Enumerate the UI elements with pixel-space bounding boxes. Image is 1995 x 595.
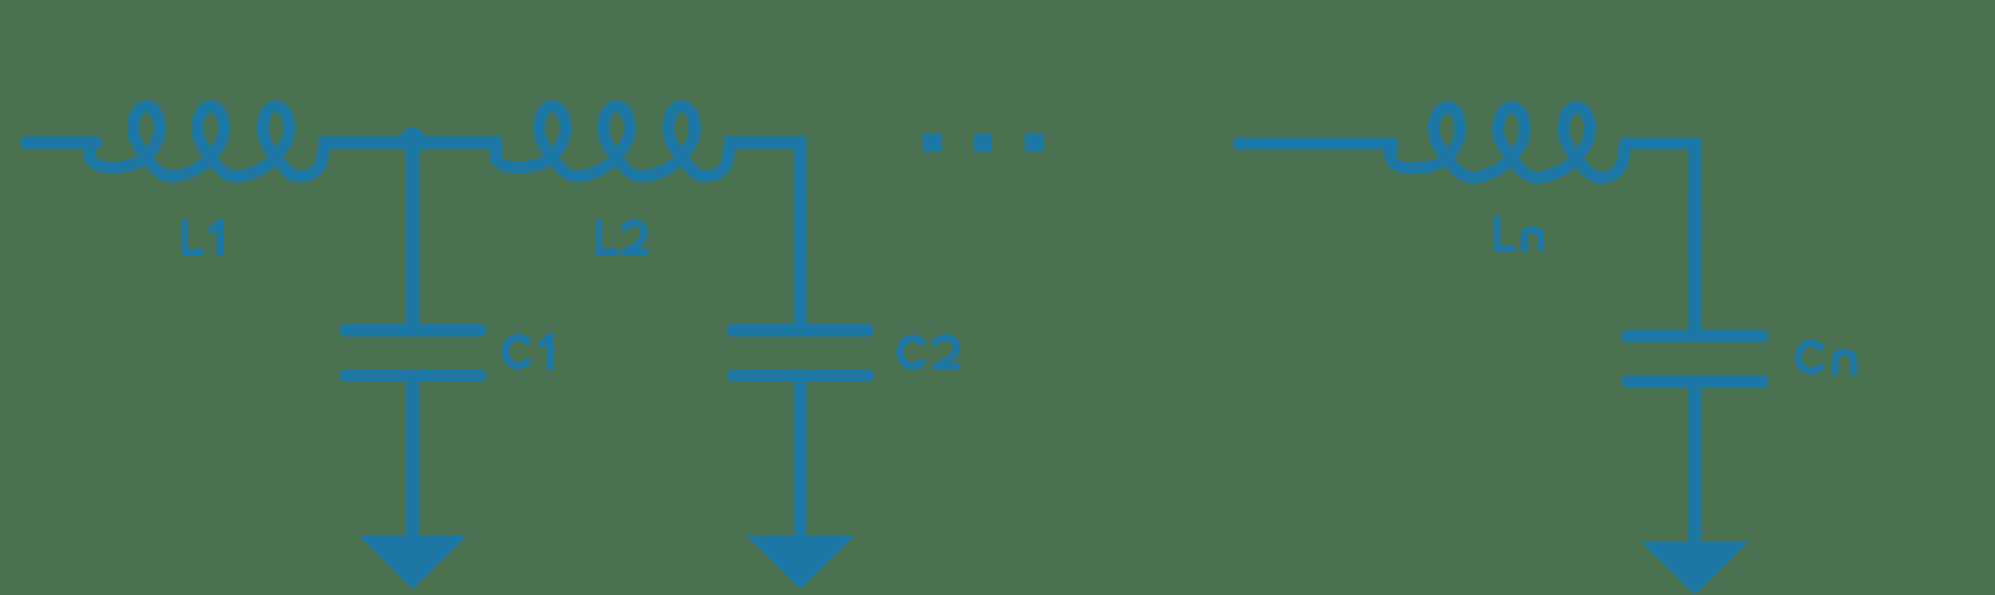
wire <box>406 148 419 324</box>
label C1 <box>505 338 529 366</box>
wire <box>794 382 807 544</box>
capacitor C1 plate top <box>345 324 480 337</box>
ground symbol <box>746 535 855 589</box>
wire <box>794 200 807 324</box>
wire <box>1234 137 1397 150</box>
capacitor Cn plate top <box>1627 330 1762 343</box>
capacitor C2 plate top <box>733 324 868 337</box>
ground symbol <box>358 535 467 589</box>
label Ln <box>1497 216 1516 248</box>
wire <box>26 136 96 149</box>
wire <box>1688 388 1701 550</box>
ground symbol <box>1640 541 1749 595</box>
capacitor C2 plate bottom <box>733 369 868 382</box>
capacitor Cn plate bottom <box>1627 375 1762 388</box>
label L2 <box>598 220 617 252</box>
inductor Ln <box>1390 107 1624 177</box>
label Cn <box>1798 343 1822 371</box>
wire <box>318 136 412 149</box>
ellipsis dots <box>922 133 941 151</box>
wire <box>412 136 501 149</box>
wire <box>406 382 419 544</box>
inductor L1 <box>89 106 323 176</box>
inductor L2 <box>495 106 729 176</box>
wire <box>1619 144 1694 250</box>
wire <box>724 143 800 250</box>
capacitor C1 plate bottom <box>345 369 480 382</box>
node A (junction dot) <box>399 128 425 154</box>
label L1 <box>184 220 203 252</box>
label C2 <box>900 338 924 366</box>
wire <box>1688 200 1701 330</box>
